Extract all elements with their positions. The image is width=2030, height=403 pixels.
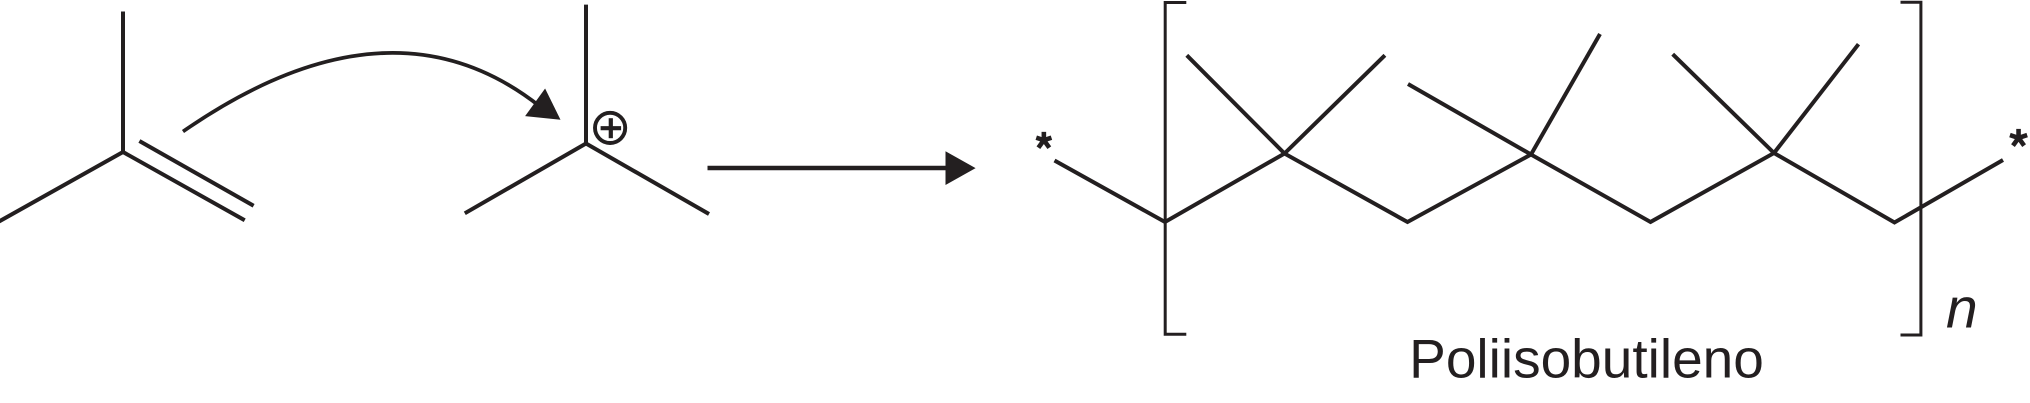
right chain-end asterisk [2010,129,2027,146]
plus charge vertical bar [609,118,613,138]
monomer1 up-right methyl bond [1285,55,1385,153]
isobutylene C=C double bond main line [123,152,245,220]
reaction arrow head [946,151,976,185]
right repeat-unit bracket [1901,2,1921,335]
reaction arrow shaft [708,166,948,171]
monomer2 up-right methyl bond [1531,34,1600,155]
monomer3 up-right methyl bond [1774,44,1859,153]
isobutylene C=C double bond second line [139,141,253,206]
polymer backbone zig-zag chain [1055,153,2004,223]
carbocation down-right methyl bond [586,144,709,215]
monomer2 up-left methyl bond [1408,84,1531,155]
monomer1 up-left methyl bond [1187,55,1285,153]
monomer3 up-left methyl bond [1673,54,1774,153]
isobutylene C2 vertical methyl bond [121,12,125,153]
curved arrow head [525,89,560,120]
carbocation vertical methyl bond [584,5,588,144]
plus charge circle [595,113,625,143]
svg-text:n: n [1946,276,1978,340]
curved electron-pushing arrow body [183,53,540,132]
left repeat-unit bracket [1165,3,1186,335]
svg-text:Poliisobutileno: Poliisobutileno [1409,327,1764,389]
carbocation down-left methyl bond [465,144,586,214]
left chain-end asterisk [1036,132,1051,148]
isobutylene down-left methyl bond [0,152,123,223]
plus charge horizontal bar [601,126,622,130]
